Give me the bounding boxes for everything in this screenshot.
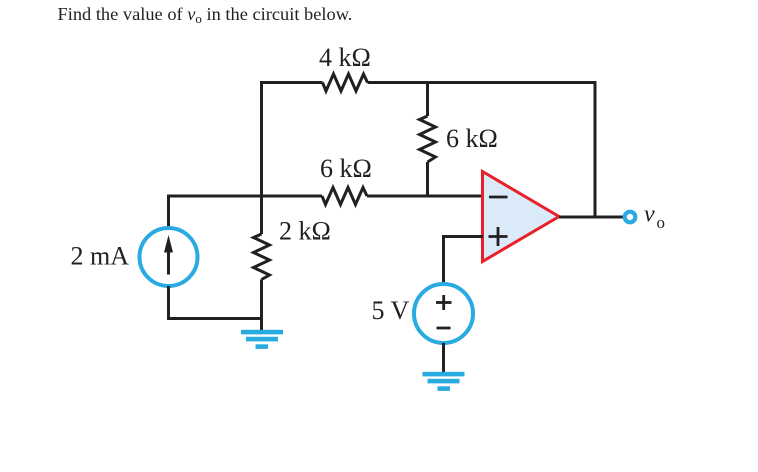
svg-text:2 kΩ: 2 kΩ [279,217,331,246]
resistor R2 6 kOhm (middle, horizontal) [322,188,367,205]
wire: current source bottom stub and bottom wire [169,286,262,319]
op-amp minus sign [489,196,508,199]
wire: 5V bottom to ground 2 [442,343,445,372]
V1 minus sign [437,327,451,330]
svg-text:6 kΩ: 6 kΩ [320,154,372,183]
current source I1 circle [140,228,198,286]
wire: middle horizontal left of 6k resistor [169,195,323,198]
op-amp plus sign [489,235,508,238]
wire: op-amp plus input to 5V source [444,237,484,285]
voltage source V1 5V circle [414,284,473,343]
node vo terminal ring [625,212,636,223]
wire: top right segment from 4k to feedback corner [368,81,597,84]
wire: 6k vertical top stub [426,81,429,116]
current source arrow [167,249,170,275]
ground G1 (below 2k resistor) [241,330,283,349]
wire: op-amp output to node vo [559,216,624,219]
wire: 2k bottom to ground 1 [260,280,263,331]
wire: left vertical with top-left corner to 4k resistor [262,83,323,235]
ground G2 (below 5V source) [423,372,465,391]
svg-text:4 kΩ: 4 kΩ [319,43,371,72]
svg-text:Find the value of vo in the ci: Find the value of vo in the circuit belo… [58,4,353,26]
wire: 6k vertical bottom stub [426,162,429,198]
wire: middle horizontal right of 6k to op-amp minus input [367,195,483,198]
svg-text:6 kΩ: 6 kΩ [446,124,498,153]
svg-text:5 V: 5 V [372,296,410,325]
svg-text:v: v [644,202,655,228]
resistor R4 2 kOhm (vertical) [254,234,270,280]
svg-text:2 mA: 2 mA [71,242,130,271]
wire: current source top stub [167,195,170,229]
resistor R1 4 kOhm (top, horizontal) [323,74,368,91]
svg-text:o: o [657,213,666,232]
resistor R3 6 kOhm (vertical) [420,116,436,162]
op-amp U1 [483,172,560,262]
wire: feedback vertical down to output [594,81,597,217]
V1 plus sign [436,301,452,304]
